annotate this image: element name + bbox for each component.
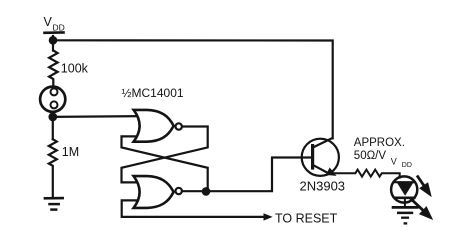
svg-text:100k: 100k <box>61 61 89 75</box>
svg-text:DD: DD <box>53 23 65 33</box>
svg-text:V: V <box>44 15 53 29</box>
svg-text:APPROX.: APPROX. <box>354 137 405 149</box>
svg-text:1M: 1M <box>62 145 79 159</box>
svg-text:DD: DD <box>402 162 412 169</box>
svg-text:TO RESET: TO RESET <box>275 212 338 226</box>
svg-text:½MC14001: ½MC14001 <box>122 86 184 100</box>
svg-text:50Ω/V: 50Ω/V <box>354 150 387 162</box>
svg-text:2N3903: 2N3903 <box>300 178 346 193</box>
svg-text:V: V <box>391 157 397 167</box>
